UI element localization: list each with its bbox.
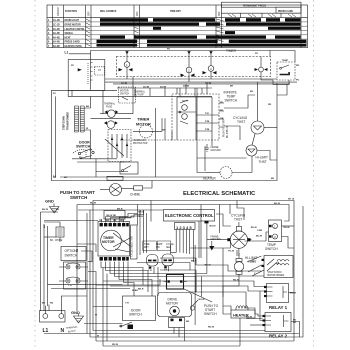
svg-text:SWITCH: SWITCH <box>129 313 142 317</box>
row6 cam bars <box>97 40 138 43</box>
vertical x=201 run <box>200 205 202 259</box>
wire drop to timer cam1 <box>126 51 128 54</box>
right trim dashed line <box>313 0 315 350</box>
label TIMER MOTOR (schematic) <box>136 117 151 127</box>
svg-text:SWITCH: SWITCH <box>65 254 78 258</box>
option leads <box>59 267 88 281</box>
svg-text:PU: PU <box>53 93 56 95</box>
svg-text:TEMP: TEMP <box>282 60 289 62</box>
svg-text:RD: RD <box>56 209 60 211</box>
svg-text:BK: BK <box>86 106 90 108</box>
row3 cam bars <box>153 27 161 30</box>
wiring outer top edge <box>93 201 294 331</box>
header separator <box>47 17 308 19</box>
mesh: right hand connections <box>216 214 231 226</box>
label TERMINAL BLOCK <box>66 325 79 333</box>
cycling thermostat (lower) <box>230 231 247 248</box>
temp selector switch box top right <box>277 62 295 80</box>
svg-text:N: N <box>53 174 56 179</box>
svg-text:REG. FABRICS: REG. FABRICS <box>100 10 117 13</box>
svg-text:Y-R: Y-R <box>68 285 72 287</box>
svg-text:RELAY 2: RELAY 2 <box>269 334 288 339</box>
svg-text:BU-W: BU-W <box>210 226 217 228</box>
svg-text:SWITCH: SWITCH <box>120 93 129 95</box>
terminal block box <box>40 311 66 323</box>
timer assembly outer box <box>98 222 130 257</box>
mesh: stubs below timer <box>101 262 128 286</box>
thermal fuse symbol <box>108 110 116 118</box>
svg-text:SWITCH: SWITCH <box>265 247 278 251</box>
svg-text:BK: BK <box>106 220 110 222</box>
svg-text:CYCLE: CYCLE <box>166 244 174 246</box>
motor switch diagonal arm <box>105 139 124 156</box>
wire: right column drop <box>277 84 287 95</box>
verticals upper mid <box>196 88 198 158</box>
bus wire 4 <box>117 87 212 89</box>
vertical x=223 run <box>223 248 231 310</box>
option switch contact 2 <box>66 279 70 283</box>
tiny caption columns <box>144 244 174 249</box>
svg-text:TRANSFORMER: TRANSFORMER <box>67 112 70 130</box>
svg-text:HEATER CNTRL: HEATER CNTRL <box>65 45 83 48</box>
svg-text:SWITCH: SWITCH <box>70 195 87 200</box>
bus wire 3 <box>113 83 290 85</box>
svg-text:CUT-OFF: CUT-OFF <box>134 94 145 96</box>
long wire through motor <box>91 117 132 119</box>
svg-text:GROUND: GROUND <box>211 150 222 152</box>
svg-text:PU-W: PU-W <box>228 250 235 252</box>
svg-text:THST: THST <box>237 120 245 124</box>
svg-text:PU: PU <box>296 80 299 82</box>
motor hub circle <box>170 306 180 316</box>
svg-text:RD: RD <box>296 65 300 67</box>
drive motor circle (schematic) <box>107 121 115 129</box>
label HI-LIMIT THST (schematic) <box>256 156 268 164</box>
svg-text:TIME: TIME <box>144 244 150 246</box>
svg-text:P1B: P1B <box>205 121 210 123</box>
heater element circle (schematic) <box>220 167 232 179</box>
svg-text:FUSE: FUSE <box>106 107 113 109</box>
relay 2 box <box>265 313 291 332</box>
svg-text:SIGNAL: SIGNAL <box>65 32 74 35</box>
svg-text:GND: GND <box>45 199 54 204</box>
wire staircase C <box>160 270 264 276</box>
heater box (lower) <box>231 310 255 318</box>
svg-text:SWITCH: SWITCH <box>204 312 217 316</box>
pointer line <box>183 289 212 303</box>
svg-text:RD: RD <box>220 110 224 112</box>
svg-text:TIME DRY: TIME DRY <box>170 11 181 13</box>
svg-text:RD: RD <box>293 322 297 324</box>
svg-text:RELAY 1: RELAY 1 <box>269 305 288 310</box>
svg-text:BU-W: BU-W <box>256 235 263 237</box>
svg-text:TEMP: TEMP <box>156 244 163 246</box>
row4 cam bar <box>225 31 235 34</box>
ground symbol (lower) <box>74 314 84 324</box>
svg-text:3A 3B: 3A 3B <box>143 86 150 89</box>
motor switch box bold (lower) <box>167 275 184 290</box>
wire vertical mid <box>155 108 157 177</box>
svg-text:ELECTRICAL SCHEMATIC: ELECTRICAL SCHEMATIC <box>183 191 256 197</box>
label STEP DOWN TRANSFORMER <box>267 272 285 277</box>
wire staircase B <box>137 263 190 271</box>
svg-text:5A-5B: 5A-5B <box>53 41 60 44</box>
svg-text:BK: BK <box>230 86 234 88</box>
wire staircase F <box>190 292 255 314</box>
wire vertical right of timer motor <box>161 118 163 131</box>
svg-text:SWITCH: SWITCH <box>225 99 238 103</box>
step down transformer box (lower) <box>264 256 293 278</box>
svg-text:P1B: P1B <box>205 129 210 131</box>
electronic control box <box>164 210 215 222</box>
wiring third top wire <box>78 209 163 211</box>
svg-text:DRUM LIGHT: DRUM LIGHT <box>65 20 80 22</box>
svg-text:PU: PU <box>255 53 258 55</box>
timer strip riser fan <box>101 219 124 223</box>
svg-text:MOTOR: MOTOR <box>102 240 115 244</box>
frame ground symbol <box>205 144 210 151</box>
timer pin labels row <box>99 220 124 222</box>
svg-text:BK-R: BK-R <box>117 208 123 210</box>
svg-text:L1: L1 <box>65 50 69 54</box>
svg-text:CU FT: CU FT <box>182 101 189 103</box>
svg-text:FRAME: FRAME <box>211 235 220 238</box>
svg-text:PRESS GARD: PRESS GARD <box>65 41 81 44</box>
ground arrow (lower) <box>211 241 213 246</box>
svg-text:OFF: OFF <box>137 11 139 16</box>
solenoid leads <box>154 266 169 296</box>
svg-text:RD-W: RD-W <box>246 317 253 319</box>
svg-text:RD: RD <box>293 320 297 322</box>
svg-text:OVERLOAD: OVERLOAD <box>133 139 146 142</box>
switch contacts inside block <box>112 134 127 158</box>
svg-text:Y-R: Y-R <box>125 303 129 305</box>
schematic outer box left/bottom/right <box>51 83 277 181</box>
svg-text:CYCLE SELECTOR: CYCLE SELECTOR <box>132 236 134 257</box>
svg-text:1 2 3 4 5: 1 2 3 4 5 <box>176 225 192 230</box>
svg-text:BK-R: BK-R <box>138 289 144 291</box>
wire staircase D <box>103 281 264 287</box>
label DOOR SWITCH <box>76 141 91 149</box>
svg-text:SEL: SEL <box>166 247 171 249</box>
mesh: center verticals <box>137 205 139 226</box>
svg-text:RD-W: RD-W <box>112 344 119 346</box>
push to start contact (lower) <box>190 306 194 310</box>
svg-text:THST: THST <box>259 160 267 164</box>
left vertical from gnd area <box>76 205 78 312</box>
wire drop to timer cam3 <box>210 51 212 54</box>
timer cam contact 2 <box>186 67 192 73</box>
svg-text:Y-R: Y-R <box>148 270 152 272</box>
svg-text:OFF: OFF <box>89 11 91 16</box>
label INFINITE TEMP SWITCH <box>224 91 238 103</box>
svg-text:HEAT: HEAT <box>65 36 72 39</box>
bottom verticals <box>89 210 91 337</box>
timer cam contact 4 <box>259 67 264 72</box>
column line off1 <box>90 5 92 48</box>
svg-text:L1: L1 <box>43 328 49 334</box>
wire drop push-to-start <box>90 54 92 90</box>
wiring mesh left staircase <box>77 244 96 252</box>
temp switch box (lower) <box>269 220 282 242</box>
row5 cam bars <box>100 35 125 38</box>
label CYCLING THST (lower) <box>231 214 246 222</box>
heater coil (lower) <box>236 306 248 310</box>
svg-text:FRAME: FRAME <box>211 146 220 149</box>
column line num <box>52 5 54 48</box>
bus wire 1 <box>105 78 277 80</box>
row2 cam bars <box>100 23 199 26</box>
svg-text:RD-W: RD-W <box>208 327 215 329</box>
chart outer box <box>47 5 308 48</box>
label OVERLOAD PROTECTOR <box>133 139 148 145</box>
wire hilimit row <box>197 157 247 159</box>
svg-text:PU: PU <box>71 65 74 67</box>
label THERMAL FUSE <box>104 103 116 109</box>
mesh: horizontal runs mid <box>96 279 160 285</box>
label FRAME GROUND (lower) <box>211 235 222 241</box>
transformer leads <box>84 96 90 108</box>
svg-text:SH 14: SH 14 <box>288 198 295 201</box>
temp switch terminal 2 <box>273 234 278 239</box>
svg-text:1A-1B: 1A-1B <box>53 19 60 22</box>
wire: thermal fuse drop <box>122 77 133 114</box>
motor terminal box <box>169 318 185 328</box>
timer lower terminal strip <box>100 257 129 261</box>
svg-text:RD: RD <box>77 248 79 252</box>
label TIMER MOTOR (wiring) <box>102 236 115 244</box>
svg-text:OPTION: OPTION <box>65 249 78 253</box>
timer cam contact 1 <box>124 62 130 68</box>
solenoid coil A <box>147 255 159 267</box>
label TEMP SWITCH <box>265 243 278 251</box>
left vertical 2 <box>43 224 45 311</box>
svg-text:THST: THST <box>234 218 242 222</box>
column line off2 <box>139 5 141 48</box>
row1 cam bars <box>100 18 148 21</box>
transformer coils (lower) <box>277 260 289 266</box>
permanent press header box <box>222 2 302 7</box>
wire knot diagonals <box>247 256 264 276</box>
svg-text:N: N <box>61 328 65 334</box>
wire: mid verticals lower <box>165 118 172 140</box>
row7 cam bars <box>97 44 138 47</box>
label DOOR SWITCH (lower) <box>129 309 142 317</box>
svg-text:BU-W: BU-W <box>42 209 49 211</box>
extra wire: pts box feeders <box>72 90 103 96</box>
wiring second top wire <box>77 205 289 211</box>
column line function <box>85 5 87 48</box>
column line regfab <box>133 5 135 48</box>
chime leads <box>44 222 60 227</box>
tiny caption boxes <box>143 241 157 251</box>
svg-text:BU: BU <box>44 224 46 228</box>
connector 12345 box <box>175 223 196 230</box>
svg-text:1C-1D: 1C-1D <box>53 25 60 27</box>
infinite box stubs <box>219 103 224 127</box>
svg-text:BU-W: BU-W <box>274 203 281 205</box>
svg-text:BU-W: BU-W <box>90 202 97 204</box>
control stubs down <box>176 221 207 325</box>
svg-text:OR: OR <box>220 118 224 120</box>
temp selector wiper <box>280 72 290 75</box>
resistor on N rail <box>107 176 123 180</box>
bottom bus lines <box>93 330 265 332</box>
timer cam contact 3 <box>208 66 214 72</box>
mesh: relay connections <box>255 314 263 316</box>
svg-text:BK: BK <box>163 130 167 132</box>
hi-limit thermostat circle (schematic) <box>246 145 257 156</box>
svg-text:THERMAL: THERMAL <box>104 103 116 106</box>
svg-text:STEP DOWN: STEP DOWN <box>268 272 282 274</box>
svg-text:DRIVE MOTOR: DRIVE MOTOR <box>65 25 82 27</box>
temp switch staircase <box>261 77 289 85</box>
solenoid coil B <box>162 254 174 266</box>
svg-text:STEP DOWN: STEP DOWN <box>64 116 66 130</box>
svg-text:V-BK: V-BK <box>257 230 263 232</box>
svg-text:LO: LO <box>98 70 101 72</box>
timer dashed box <box>116 57 270 77</box>
svg-text:PRESS CARE: PRESS CARE <box>278 10 293 13</box>
timer motor circle (schematic) <box>139 125 152 138</box>
wire staircase A <box>160 258 262 271</box>
cam3 arrows <box>203 71 217 74</box>
svg-text:BU-W: BU-W <box>205 264 212 266</box>
svg-text:BK-R: BK-R <box>191 261 197 263</box>
drive motor (lower) <box>158 293 192 317</box>
svg-text:TRANSFORMER: TRANSFORMER <box>267 274 285 277</box>
timer selector strip <box>131 225 138 259</box>
cycling thermostat circle (schematic) <box>251 121 264 134</box>
option switch contact 1 <box>64 262 86 289</box>
wire L1 top run <box>69 51 270 57</box>
buzzer chime box <box>56 227 64 237</box>
svg-text:4A-4B: 4A-4B <box>53 36 60 39</box>
wire cycling to right edge <box>264 127 277 129</box>
box top edge <box>51 89 117 91</box>
svg-text:2A-2B: 2A-2B <box>53 28 60 31</box>
drive motor bottom leads <box>174 328 185 342</box>
label CYCLING THST (schematic) <box>233 116 248 124</box>
svg-text:FUNCTION: FUNCTION <box>65 11 77 13</box>
wire: infinite box top feeders <box>177 82 207 94</box>
svg-text:RD: RD <box>50 303 54 305</box>
svg-text:OR: OR <box>89 150 93 152</box>
terminal N <box>59 314 64 319</box>
box above timer <box>104 211 125 220</box>
svg-text:BK: BK <box>186 321 190 323</box>
temp switch terminal 1 <box>273 224 278 229</box>
small box lower <box>120 162 138 174</box>
label OPTION SWITCH <box>61 247 86 261</box>
svg-text:PU: PU <box>167 49 170 51</box>
hi-limit thermostat (lower) <box>234 262 244 272</box>
svg-text:MOTOR: MOTOR <box>120 91 129 93</box>
svg-text:HEATER: HEATER <box>203 177 216 181</box>
svg-text:6A-6B: 6A-6B <box>53 45 60 48</box>
timer upper terminal strip <box>100 223 129 226</box>
hi-limit thst (lower) label <box>245 256 257 264</box>
label FRAME GROUND <box>211 146 222 152</box>
svg-text:BK W RD: BK W RD <box>107 215 117 217</box>
push-to-start switch box <box>68 60 105 91</box>
label DRIVE MOTOR <box>166 298 179 306</box>
label PUSH TO START SWITCH (lower) <box>204 304 219 316</box>
svg-text:5A 5B: 5A 5B <box>183 85 190 88</box>
infinite switch dashed box <box>172 94 219 140</box>
wire staircase E <box>110 286 264 291</box>
svg-text:1A 1B: 1A 1B <box>205 82 212 85</box>
svg-text:BU-W: BU-W <box>199 299 206 301</box>
svg-text:PU: PU <box>252 261 255 263</box>
svg-text:W-B: W-B <box>139 216 144 218</box>
broken belt switch dashed box <box>119 87 136 103</box>
door switch box (lower) <box>123 296 156 321</box>
svg-text:CHIME: CHIME <box>130 193 140 197</box>
svg-text:BZ.. CHIME: BZ.. CHIME <box>50 240 63 242</box>
svg-text:CIRCUIT: CIRCUIT <box>58 6 60 16</box>
svg-text:BK-R: BK-R <box>139 212 145 214</box>
cam2 arrows <box>181 74 195 77</box>
timer motor circle (wiring) <box>101 230 122 251</box>
wire N run <box>60 176 212 178</box>
left trim dashed line <box>34 0 36 350</box>
svg-text:RD-W: RD-W <box>233 279 240 281</box>
svg-text:RD-W: RD-W <box>284 227 291 229</box>
svg-text:PROTECTOR: PROTECTOR <box>133 143 148 145</box>
svg-text:RD: RD <box>268 104 272 106</box>
column line circuit <box>63 5 65 48</box>
svg-text:PU: PU <box>220 102 223 104</box>
svg-text:PERMANENT PRESS: PERMANENT PRESS <box>243 4 266 7</box>
svg-text:RD-W: RD-W <box>251 227 258 229</box>
infinite switch contacts <box>182 105 188 111</box>
pts lower jog <box>68 90 212 96</box>
svg-text:LIGHTED CONTRL: LIGHTED CONTRL <box>65 29 86 31</box>
svg-text:MOTOR: MOTOR <box>166 302 179 306</box>
column line timedry <box>215 5 217 48</box>
wire: infinite to cycling steps <box>224 95 255 108</box>
svg-text:THERMAL: THERMAL <box>134 91 146 94</box>
ground symbol GND <box>50 204 60 214</box>
svg-text:BU: BU <box>42 303 46 305</box>
relay 1 box <box>267 284 289 303</box>
svg-text:BU: BU <box>250 91 254 93</box>
svg-text:2A 2B: 2A 2B <box>121 82 128 85</box>
motor centrifugal switch dashed block <box>108 130 131 162</box>
svg-text:TH: TH <box>99 220 102 222</box>
terminal L1 <box>43 314 48 319</box>
black connector tab <box>205 221 209 224</box>
bus wire 2 <box>105 81 297 83</box>
svg-text:RD: RD <box>120 220 124 222</box>
wire heater to hi-limit <box>251 156 253 173</box>
svg-text:3A-3B: 3A-3B <box>53 32 60 35</box>
cam1 arrows <box>119 68 133 71</box>
svg-text:OFF: OFF <box>219 11 221 16</box>
svg-text:TIMER: TIMER <box>226 49 237 53</box>
row hairlines <box>47 21 308 23</box>
push-to-start switch contacts <box>78 69 81 71</box>
timer cam arms <box>113 233 130 252</box>
svg-text:BK: BK <box>271 178 275 180</box>
off column hatches <box>86 19 90 46</box>
press care sub box <box>276 7 301 13</box>
wire hilimit to right edge <box>257 151 277 161</box>
wire: dashed run below infinite box <box>120 139 172 141</box>
column line off3 <box>220 5 222 48</box>
svg-text:ELECTRONIC CONTROL: ELECTRONIC CONTROL <box>165 213 214 218</box>
